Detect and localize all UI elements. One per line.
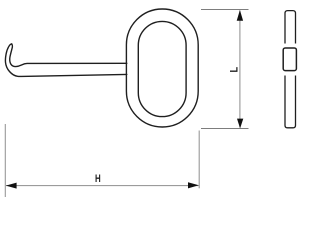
hook outer contour	[5, 44, 126, 77]
H dimension line	[6, 185, 199, 187]
svg-text:L: L	[229, 67, 241, 73]
hook inner contour / shaft top	[10, 44, 127, 67]
L dimension bottom extension line	[201, 128, 249, 130]
side view: shaft cross-section square	[283, 48, 296, 71]
H dimension right arrow	[188, 182, 199, 188]
H dimension left arrow	[6, 183, 17, 189]
L dimension line	[239, 11, 241, 128]
L dimension top arrow	[237, 10, 243, 21]
H dimension right extension line	[198, 131, 200, 189]
H dimension left extension line	[4, 124, 6, 197]
side view: ring upper segment	[285, 11, 296, 44]
side view: ring lower segment	[285, 76, 296, 128]
ring inner oval	[138, 21, 186, 116]
L dimension top extension line	[201, 9, 249, 11]
ring outer oval	[126, 9, 198, 127]
svg-text:H: H	[95, 173, 101, 186]
L dimension bottom arrow	[237, 119, 243, 129]
